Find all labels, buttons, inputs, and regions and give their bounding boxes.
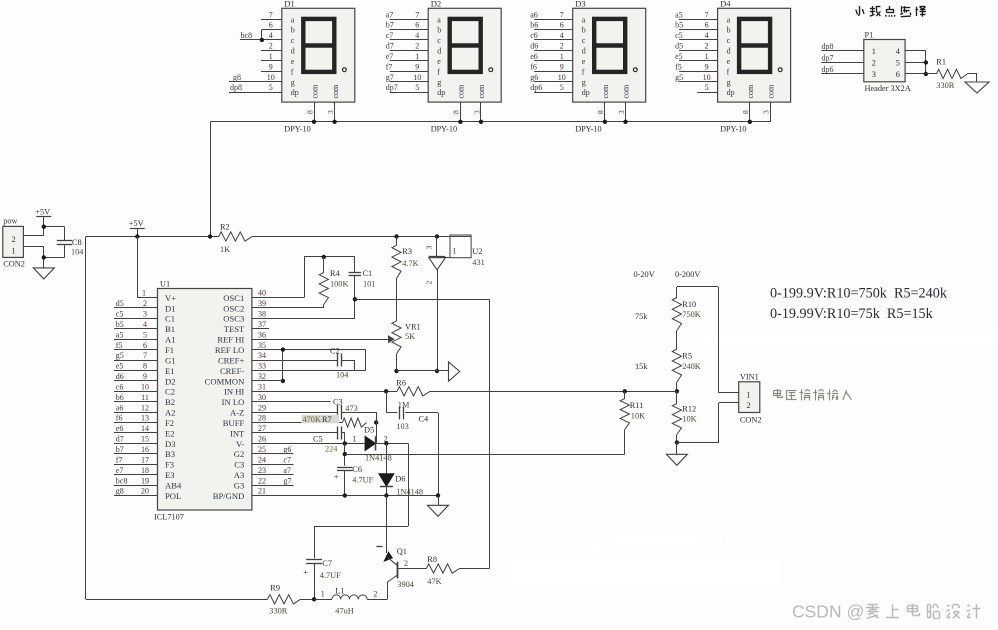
connector CON2 pow bbox=[3, 217, 25, 269]
svg-text:E3: E3 bbox=[165, 470, 175, 480]
node rail/R3 bbox=[394, 234, 398, 238]
svg-text:11: 11 bbox=[141, 393, 149, 402]
svg-text:g: g bbox=[727, 78, 731, 87]
D4 pin 1 (e) bbox=[675, 52, 718, 61]
resistor R11 10K bbox=[620, 391, 645, 431]
resistor R5 240K bbox=[672, 349, 700, 391]
svg-text:R6: R6 bbox=[396, 379, 406, 388]
svg-text:c: c bbox=[291, 36, 295, 45]
U1 pin 12 net a6 bbox=[114, 403, 158, 412]
svg-text:R5: R5 bbox=[682, 351, 692, 360]
U1 pin 8 net e5 bbox=[114, 362, 158, 371]
resistor R2 1K bbox=[219, 223, 253, 255]
U1 pin 35 stub bbox=[258, 341, 266, 350]
svg-text:1: 1 bbox=[142, 288, 146, 297]
svg-text:e5: e5 bbox=[116, 362, 124, 371]
svg-text:C4: C4 bbox=[419, 414, 430, 423]
svg-text:DPY-10: DPY-10 bbox=[720, 125, 746, 134]
display D4 DPY-10 bbox=[718, 0, 791, 102]
U1 pin 19 net bc8 bbox=[114, 476, 158, 485]
svg-text:b: b bbox=[437, 26, 441, 35]
wire REF LO pin35 bbox=[252, 349, 366, 351]
svg-text:b: b bbox=[291, 26, 295, 35]
svg-text:D3: D3 bbox=[575, 0, 586, 9]
svg-text:e: e bbox=[291, 57, 295, 66]
watermark CSDN bbox=[792, 602, 980, 622]
svg-text:f: f bbox=[291, 67, 294, 76]
svg-text:com: com bbox=[477, 84, 486, 99]
node +5V rail tap bbox=[135, 234, 139, 238]
svg-text:10: 10 bbox=[267, 73, 275, 82]
ground analog bbox=[428, 496, 449, 517]
D1 pin 10 (g) bbox=[229, 73, 282, 82]
U1 pin 34 stub bbox=[258, 351, 266, 360]
capacitor C4 103 bbox=[386, 391, 438, 431]
U1 pin 24 stub bbox=[252, 455, 294, 464]
U1 pin 15 net d7 bbox=[114, 435, 158, 444]
svg-text:d: d bbox=[291, 47, 295, 56]
node IN HI / R6 / C4 bbox=[384, 389, 388, 393]
svg-text:39: 39 bbox=[258, 299, 266, 308]
node R5/R12 tap bbox=[675, 389, 679, 393]
svg-text:a6: a6 bbox=[116, 403, 124, 412]
svg-text:B1: B1 bbox=[165, 324, 175, 334]
svg-text:38: 38 bbox=[258, 310, 266, 319]
svg-text:a6: a6 bbox=[530, 10, 538, 19]
node R4/C1 top bbox=[322, 255, 326, 259]
U1 pin 23 stub bbox=[252, 466, 294, 475]
svg-text:8: 8 bbox=[452, 110, 461, 114]
svg-text:com: com bbox=[310, 84, 319, 99]
node VR1 bottom bbox=[394, 369, 398, 373]
svg-text:0-199.9V:R10=750k R5=240k: 0-199.9V:R10=750k R5=240k bbox=[770, 285, 948, 301]
D3 pin 1 (e) bbox=[530, 52, 573, 61]
U1 pin 18 net e7 bbox=[114, 466, 158, 475]
svg-text:5: 5 bbox=[269, 83, 273, 92]
svg-text:d7: d7 bbox=[116, 435, 124, 444]
label 470K R7 highlighted bbox=[302, 415, 340, 424]
svg-text:4.7UF: 4.7UF bbox=[352, 476, 373, 485]
svg-text:30: 30 bbox=[258, 393, 266, 402]
svg-text:2: 2 bbox=[705, 42, 709, 51]
svg-text:e: e bbox=[582, 57, 586, 66]
D1 com pins 8 and 3 bbox=[305, 102, 335, 122]
svg-text:23: 23 bbox=[258, 466, 266, 475]
U1 pin 21 stub bbox=[258, 487, 266, 496]
svg-text:29: 29 bbox=[258, 403, 266, 412]
svg-text:c5: c5 bbox=[675, 31, 683, 40]
U1 pin 36 stub bbox=[258, 330, 266, 339]
U1 pin 37 stub bbox=[252, 320, 269, 329]
svg-text:d: d bbox=[437, 47, 441, 56]
wire REF LO to COMMON bbox=[282, 350, 284, 381]
U1 pin 33 stub bbox=[258, 362, 266, 371]
header P1 Header 3X2A bbox=[864, 31, 911, 93]
wire A-Z pin29 bbox=[252, 412, 338, 414]
svg-text:a: a bbox=[727, 15, 731, 24]
svg-text:U2: U2 bbox=[472, 247, 482, 256]
power +5V symbol (rail) bbox=[129, 219, 145, 236]
svg-text:R1: R1 bbox=[936, 58, 946, 67]
U1 pin 1 number bbox=[142, 288, 146, 297]
D1 pin 6 (b) bbox=[262, 21, 282, 30]
resistor R12 10K bbox=[672, 391, 696, 442]
wire CREF- pin33 bbox=[252, 350, 366, 371]
U1 pin 7 net g5 bbox=[114, 351, 158, 360]
svg-text:6: 6 bbox=[143, 341, 147, 350]
svg-text:0-20V: 0-20V bbox=[634, 270, 655, 279]
svg-text:G1: G1 bbox=[165, 355, 176, 365]
svg-text:7: 7 bbox=[415, 10, 419, 19]
node C6 bottom bbox=[343, 493, 347, 497]
svg-text:C1: C1 bbox=[165, 314, 175, 324]
svg-text:A1: A1 bbox=[165, 335, 176, 345]
svg-text:4: 4 bbox=[269, 31, 273, 40]
D4 pin 2 (d) bbox=[675, 42, 718, 51]
svg-text:a7: a7 bbox=[283, 466, 291, 475]
svg-text:2: 2 bbox=[269, 42, 273, 51]
svg-text:25: 25 bbox=[258, 445, 266, 454]
svg-text:C8: C8 bbox=[72, 238, 82, 247]
svg-text:C2: C2 bbox=[330, 346, 340, 355]
ground divider bbox=[666, 443, 687, 466]
D4 pin 9 (f) bbox=[675, 62, 718, 71]
svg-text:A3: A3 bbox=[234, 470, 245, 480]
svg-text:CSDN @: CSDN @ bbox=[792, 602, 864, 622]
D3 pin 5 (dp) bbox=[530, 83, 573, 92]
D3 pin 4 (c) bbox=[530, 31, 573, 40]
svg-text:R3: R3 bbox=[402, 247, 412, 256]
capacitor C3 473 bbox=[333, 398, 376, 420]
svg-text:7: 7 bbox=[560, 10, 564, 19]
svg-text:+: + bbox=[334, 472, 339, 482]
svg-text:20: 20 bbox=[141, 487, 149, 496]
svg-text:8: 8 bbox=[143, 362, 147, 371]
svg-text:dp7: dp7 bbox=[386, 83, 398, 92]
svg-text:75k: 75k bbox=[635, 312, 648, 321]
svg-text:f5: f5 bbox=[675, 62, 682, 71]
svg-text:c: c bbox=[437, 36, 441, 45]
svg-text:1K: 1K bbox=[220, 245, 230, 254]
svg-text:10: 10 bbox=[413, 73, 421, 82]
svg-text:BUFF: BUFF bbox=[223, 418, 245, 428]
svg-text:D5: D5 bbox=[364, 425, 374, 434]
wire BP/GND pin21 bbox=[252, 495, 438, 497]
svg-text:431: 431 bbox=[472, 258, 484, 267]
svg-text:BP/GND: BP/GND bbox=[213, 491, 245, 501]
D4 pin 7 (a) bbox=[675, 10, 718, 19]
svg-text:13: 13 bbox=[141, 414, 149, 423]
svg-text:D1: D1 bbox=[165, 303, 176, 313]
svg-text:28: 28 bbox=[258, 414, 266, 423]
svg-text:e6: e6 bbox=[530, 52, 538, 61]
U1 pin 17 net f7 bbox=[114, 455, 158, 464]
capacitor C7 4.7UF bbox=[303, 559, 341, 599]
svg-text:Q1: Q1 bbox=[397, 547, 407, 556]
svg-text:3: 3 bbox=[617, 110, 626, 114]
svg-text:10K: 10K bbox=[631, 411, 645, 420]
power +5V symbol (left) bbox=[35, 207, 51, 226]
svg-text:dp: dp bbox=[582, 88, 590, 97]
svg-text:DPY-10: DPY-10 bbox=[431, 125, 457, 134]
svg-text:com: com bbox=[457, 84, 466, 99]
wire OSC1 pin40 bbox=[252, 257, 355, 298]
svg-text:VIN1: VIN1 bbox=[740, 373, 759, 382]
svg-text:5K: 5K bbox=[405, 332, 415, 341]
svg-text:b: b bbox=[582, 26, 586, 35]
svg-text:g8: g8 bbox=[233, 73, 241, 82]
svg-text:D4: D4 bbox=[720, 0, 731, 9]
svg-text:9: 9 bbox=[560, 62, 564, 71]
capacitor C6 4.7UF bbox=[334, 443, 374, 495]
svg-text:f6: f6 bbox=[530, 62, 537, 71]
svg-text:R11: R11 bbox=[630, 401, 644, 410]
svg-text:4.7UF: 4.7UF bbox=[320, 571, 341, 580]
svg-text:R4: R4 bbox=[330, 269, 341, 278]
svg-text:c: c bbox=[727, 36, 731, 45]
svg-text:dp: dp bbox=[291, 88, 299, 97]
node D5 cathode bbox=[384, 441, 388, 445]
svg-text:9: 9 bbox=[143, 372, 147, 381]
svg-text:3: 3 bbox=[424, 246, 433, 250]
svg-text:CREF+: CREF+ bbox=[218, 355, 244, 365]
svg-text:bc8: bc8 bbox=[241, 31, 253, 40]
svg-text:R2: R2 bbox=[220, 223, 230, 232]
node P1 pin5 tie bbox=[924, 60, 928, 64]
svg-text:2: 2 bbox=[373, 590, 377, 599]
U1 pin 11 net b6 bbox=[114, 393, 158, 402]
svg-text:9: 9 bbox=[415, 62, 419, 71]
U1 pin 39 stub bbox=[258, 299, 266, 308]
svg-text:18: 18 bbox=[141, 466, 149, 475]
diode D5 1N4148 bbox=[353, 425, 392, 462]
resistor R3 4.7K bbox=[392, 237, 419, 321]
svg-text:DPY-10: DPY-10 bbox=[284, 125, 310, 134]
wire C3/R7 to V- line bbox=[376, 412, 378, 443]
wire R12 bottom to VIN1 pin2 bbox=[677, 403, 739, 443]
svg-text:1: 1 bbox=[415, 52, 419, 61]
svg-text:750K: 750K bbox=[682, 310, 700, 319]
svg-text:REF HI: REF HI bbox=[217, 335, 244, 345]
capacitor C1 101 bbox=[252, 257, 376, 319]
svg-text:dp7: dp7 bbox=[822, 54, 834, 63]
wire OSC1 to Q1 base resistor bbox=[355, 299, 490, 568]
svg-text:e: e bbox=[437, 57, 441, 66]
svg-text:4: 4 bbox=[705, 31, 709, 40]
D1 pin 5 (dp) bbox=[229, 83, 282, 92]
svg-text:a5: a5 bbox=[675, 10, 683, 19]
svg-text:f6: f6 bbox=[116, 414, 123, 423]
svg-text:1: 1 bbox=[353, 434, 357, 443]
wire REF HI to VR1 wiper bbox=[252, 339, 389, 341]
svg-text:com: com bbox=[767, 84, 776, 99]
svg-text:dp6: dp6 bbox=[822, 65, 834, 74]
svg-text:e7: e7 bbox=[116, 466, 124, 475]
U1 pin 31 stub bbox=[258, 383, 266, 392]
svg-text:D6: D6 bbox=[395, 475, 405, 484]
svg-text:4: 4 bbox=[560, 31, 564, 40]
svg-text:5: 5 bbox=[560, 83, 564, 92]
svg-text:b7: b7 bbox=[386, 21, 394, 30]
svg-text:c7: c7 bbox=[386, 31, 394, 40]
svg-text:e5: e5 bbox=[675, 52, 683, 61]
node R9/C7/L1 bbox=[312, 597, 316, 601]
D2 pin 4 (c) bbox=[386, 31, 429, 40]
svg-text:1: 1 bbox=[321, 590, 325, 599]
U1 pin 27 stub bbox=[258, 424, 266, 433]
D3 pin 9 (f) bbox=[530, 62, 573, 71]
node C3/R7 join bbox=[374, 420, 378, 424]
wire IN HI pin31 bbox=[252, 391, 397, 393]
wire C4 to analog ground bbox=[438, 413, 440, 496]
wire BUFF pin28 bbox=[252, 422, 343, 424]
svg-text:27: 27 bbox=[258, 424, 266, 433]
wire CON2 pin1 to ground bbox=[23, 247, 64, 268]
svg-text:g: g bbox=[582, 78, 586, 87]
svg-text:OSC3: OSC3 bbox=[223, 314, 244, 324]
node C8 bottom bbox=[42, 255, 46, 259]
D2 pin 2 (d) bbox=[386, 42, 429, 51]
svg-text:32: 32 bbox=[258, 372, 266, 381]
svg-text:com: com bbox=[746, 84, 755, 99]
svg-text:OSC1: OSC1 bbox=[223, 293, 244, 303]
ground after R1 bbox=[965, 74, 989, 93]
svg-text:b7: b7 bbox=[116, 445, 124, 454]
diode D6 1N4148 bbox=[379, 443, 423, 496]
wire display common bus bbox=[210, 122, 770, 237]
node REF LO bbox=[281, 347, 285, 351]
capacitor C2 104 bbox=[252, 346, 355, 379]
node R11 top bbox=[623, 389, 627, 393]
svg-text:d5: d5 bbox=[675, 42, 683, 51]
svg-text:16: 16 bbox=[141, 445, 149, 454]
svg-text:D3: D3 bbox=[165, 439, 176, 449]
svg-text:C2: C2 bbox=[165, 387, 175, 397]
U1 pin 3 net c5 bbox=[114, 310, 158, 319]
node OSC1 branch bbox=[353, 297, 357, 301]
svg-text:15: 15 bbox=[141, 435, 149, 444]
svg-text:C5: C5 bbox=[313, 434, 323, 443]
svg-text:C1: C1 bbox=[363, 269, 373, 278]
op-amp U1 ICL7107 body bbox=[154, 280, 252, 522]
label 电压检测输入 (voltage sense input) bbox=[773, 389, 851, 400]
svg-text:C6: C6 bbox=[352, 465, 362, 474]
wire P1 pin 1 net dp8 bbox=[821, 42, 864, 51]
svg-text:c: c bbox=[582, 36, 586, 45]
svg-text:9: 9 bbox=[705, 62, 709, 71]
svg-text:dp6: dp6 bbox=[530, 83, 542, 92]
U1 pin 25 stub bbox=[252, 445, 294, 454]
U1 pin 32 stub bbox=[258, 372, 266, 381]
svg-text:g6: g6 bbox=[283, 445, 291, 454]
svg-text:g: g bbox=[291, 78, 295, 87]
U1 pin 38 stub bbox=[258, 310, 266, 319]
U1 pin 16 net b7 bbox=[114, 445, 158, 454]
svg-text:D2: D2 bbox=[165, 376, 176, 386]
resistor R1 330R bbox=[926, 58, 977, 91]
node G2 wire tap bbox=[343, 452, 347, 456]
svg-text:6: 6 bbox=[269, 21, 273, 30]
svg-text:+5V: +5V bbox=[35, 207, 50, 216]
svg-text:f5: f5 bbox=[116, 341, 123, 350]
svg-text:17: 17 bbox=[141, 455, 149, 464]
svg-text:1: 1 bbox=[12, 247, 16, 256]
U1 pin 20 net g8 bbox=[114, 487, 158, 496]
D4 pin 4 (c) bbox=[675, 31, 718, 40]
capacitor C5 224 bbox=[252, 427, 345, 454]
svg-text:G3: G3 bbox=[234, 481, 245, 491]
svg-text:com: com bbox=[622, 84, 631, 99]
VR1 wiper arrow bbox=[389, 336, 394, 342]
svg-text:IN HI: IN HI bbox=[224, 387, 244, 397]
svg-text:D1: D1 bbox=[284, 0, 295, 9]
wire V- to C7 feed bbox=[314, 443, 408, 558]
svg-text:TEST: TEST bbox=[224, 324, 245, 334]
svg-text:3: 3 bbox=[762, 110, 771, 114]
node D6 cathode bbox=[384, 493, 388, 497]
D1 pin 2 (d) bbox=[261, 42, 282, 51]
minus mark bbox=[376, 546, 382, 548]
svg-text:473: 473 bbox=[345, 404, 357, 413]
node C5/C6 tap bbox=[343, 441, 347, 445]
svg-text:224: 224 bbox=[325, 445, 338, 454]
U1 pin 4 net b5 bbox=[114, 320, 158, 329]
wire +5V to U1 pin1 bbox=[137, 237, 157, 298]
U1 pin 6 net f5 bbox=[114, 341, 158, 350]
svg-text:4.7K: 4.7K bbox=[402, 259, 418, 268]
svg-text:f7: f7 bbox=[386, 62, 393, 71]
svg-text:a: a bbox=[437, 15, 441, 24]
svg-text:104: 104 bbox=[71, 247, 84, 256]
svg-text:a: a bbox=[291, 15, 295, 24]
svg-text:f: f bbox=[582, 67, 585, 76]
svg-text:AB4: AB4 bbox=[165, 481, 182, 491]
svg-text:e: e bbox=[727, 57, 731, 66]
svg-text:10K: 10K bbox=[682, 415, 696, 424]
svg-text:31: 31 bbox=[258, 383, 266, 392]
svg-text:5: 5 bbox=[415, 83, 419, 92]
U1 pin 40 stub bbox=[258, 289, 266, 298]
svg-text:G2: G2 bbox=[234, 449, 245, 459]
svg-text:dp8: dp8 bbox=[230, 83, 242, 92]
svg-text:19: 19 bbox=[141, 476, 149, 485]
U1 pin 5 net a5 bbox=[114, 330, 158, 339]
svg-text:b5: b5 bbox=[675, 21, 683, 30]
svg-text:pow: pow bbox=[3, 217, 17, 226]
svg-text:d: d bbox=[582, 47, 586, 56]
svg-text:40: 40 bbox=[258, 289, 266, 298]
svg-text:b5: b5 bbox=[116, 320, 124, 329]
svg-text:26: 26 bbox=[258, 435, 266, 444]
D2 pin 6 (b) bbox=[386, 21, 429, 30]
wire 0-200V top bbox=[677, 287, 739, 393]
svg-text:2: 2 bbox=[143, 299, 147, 308]
svg-text:V+: V+ bbox=[165, 293, 176, 303]
svg-text:F2: F2 bbox=[165, 418, 174, 428]
svg-text:1: 1 bbox=[705, 52, 709, 61]
node +5V/C8 top bbox=[42, 225, 46, 229]
svg-text:8: 8 bbox=[305, 110, 314, 114]
svg-text:1: 1 bbox=[872, 47, 876, 56]
svg-text:CON2: CON2 bbox=[740, 415, 762, 424]
D2 pin 10 (g) bbox=[386, 73, 429, 82]
svg-text:F1: F1 bbox=[165, 345, 174, 355]
svg-text:8: 8 bbox=[596, 110, 605, 114]
display D2 DPY-10 bbox=[428, 0, 501, 102]
svg-text:2: 2 bbox=[404, 559, 408, 568]
ground under C8 bbox=[33, 268, 54, 279]
svg-text:0-19.99V:R10=75k R5=15k: 0-19.99V:R10=75k R5=15k bbox=[770, 306, 934, 322]
